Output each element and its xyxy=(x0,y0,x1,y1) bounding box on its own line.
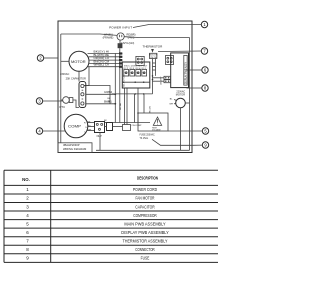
svg-text:1: 1 xyxy=(203,22,206,27)
caution note box xyxy=(138,113,168,131)
capacitor value label xyxy=(66,77,86,81)
svg-text:4: 4 xyxy=(38,129,41,134)
connector CN-MOTOR label xyxy=(123,75,125,87)
wire leader to callout 8 xyxy=(187,87,202,89)
connector CN-COMP xyxy=(123,125,143,131)
wire pwb down mid xyxy=(133,94,135,123)
connector CN-TH xyxy=(149,53,158,59)
callout 6 xyxy=(202,67,208,73)
motor lead labels xyxy=(94,50,110,66)
svg-text:T3.15AL: T3.15AL xyxy=(140,137,149,140)
svg-text:MOTOR: MOTOR xyxy=(176,93,185,96)
parts table frame xyxy=(4,170,218,262)
svg-text:6: 6 xyxy=(26,230,29,235)
svg-text:CN-MOTOR: CN-MOTOR xyxy=(123,75,125,87)
svg-text:RD: RD xyxy=(88,126,92,128)
wire vent motor down xyxy=(180,108,182,151)
wire OLP to junction xyxy=(113,123,151,127)
vertical wire x115 xyxy=(114,54,116,123)
node RD(BR) FAN label xyxy=(126,33,135,40)
svg-text:WH: WH xyxy=(169,103,173,105)
callout 8 xyxy=(202,85,208,91)
svg-text:BN(BK): BN(BK) xyxy=(104,102,112,104)
wire leader to callout 7 xyxy=(158,50,201,53)
svg-text:RY-C: RY-C xyxy=(142,68,147,70)
connector CN-DISP upper xyxy=(164,76,171,79)
connector box left xyxy=(136,56,144,65)
table row 5 xyxy=(26,221,165,226)
table row 4 xyxy=(26,213,157,218)
wire OLP down to bus xyxy=(99,133,101,151)
display PWB label xyxy=(184,62,187,84)
wire capacitor top to junction xyxy=(84,86,111,104)
svg-text:5: 5 xyxy=(26,221,29,226)
svg-text:7: 7 xyxy=(26,239,29,244)
wire pwb to display xyxy=(152,62,164,94)
svg-text:5: 5 xyxy=(204,129,207,134)
display PWB inner board xyxy=(184,55,187,85)
wire pwb to note box xyxy=(143,94,145,113)
wire motor lead 4 xyxy=(89,62,123,64)
connector CN-DISP lower xyxy=(164,80,171,83)
svg-text:WH(BL) CA: WH(BL) CA xyxy=(94,64,110,67)
svg-text:9: 9 xyxy=(26,256,29,261)
svg-text:6: 6 xyxy=(204,68,207,73)
overload protector OLP xyxy=(95,122,105,133)
vent motor M3 xyxy=(176,98,186,108)
svg-text:CONNECTOR: CONNECTOR xyxy=(135,247,155,252)
svg-text:COMP: COMP xyxy=(68,124,82,128)
callout 7 xyxy=(201,48,207,54)
wire label BK-GN xyxy=(149,106,151,113)
main PWB assembly box xyxy=(122,62,150,88)
svg-text:RY-F: RY-F xyxy=(130,68,135,70)
wire fuse diagonal xyxy=(152,139,192,145)
capacitor C1 xyxy=(79,82,86,108)
wire capacitor right mid xyxy=(86,92,116,94)
svg-text:RY-H: RY-H xyxy=(136,68,141,70)
table row 2 xyxy=(26,196,155,201)
wire comp lead R xyxy=(87,122,94,124)
wire leader to callout 3 xyxy=(43,100,63,102)
table row 3 xyxy=(26,204,155,209)
wire motor to capacitor xyxy=(78,71,80,81)
relay RY2 xyxy=(130,68,135,76)
wire comp lead S xyxy=(88,126,95,128)
warning caption xyxy=(152,127,161,131)
table header DESCRIPTION xyxy=(137,176,158,181)
wiring diagram outer border xyxy=(58,21,192,153)
motor connector pins xyxy=(119,52,122,67)
wire leader to callout 2 xyxy=(44,57,58,59)
svg-text:2: 2 xyxy=(26,196,29,201)
svg-text:GN(BN): GN(BN) xyxy=(104,92,112,94)
svg-text:3BAHP2030P: 3BAHP2030P xyxy=(63,143,80,147)
display PWB assembly box xyxy=(171,53,189,88)
ground symbol below plug xyxy=(118,40,123,48)
svg-text:FAN MOTOR: FAN MOTOR xyxy=(136,196,156,201)
svg-text:DESCRIPTION: DESCRIPTION xyxy=(137,176,158,181)
wire motor left xyxy=(61,60,69,62)
svg-text:COMPRESSOR: COMPRESSOR xyxy=(133,213,157,218)
svg-text:4: 4 xyxy=(26,213,29,218)
rating plate box xyxy=(58,143,92,153)
svg-text:3: 3 xyxy=(38,99,41,104)
svg-text:(FRAME): (FRAME) xyxy=(103,35,114,39)
table row 1 xyxy=(26,187,157,192)
comp lead labels xyxy=(88,122,92,132)
svg-text:7: 7 xyxy=(203,49,206,54)
svg-text:9: 9 xyxy=(204,143,207,148)
svg-text:BK-GN: BK-GN xyxy=(149,106,151,113)
fuse spec label F1 xyxy=(140,133,155,140)
wire capacitor right bottom xyxy=(86,102,116,104)
junction wires below pwb xyxy=(125,88,139,125)
callout 3 xyxy=(36,98,42,104)
node GN/YL(GN) label xyxy=(121,41,135,45)
callout 2 xyxy=(37,55,43,61)
wire vent motor right xyxy=(185,102,189,104)
node WH(BL) FRAME label xyxy=(103,33,114,40)
wire motor lead 5 xyxy=(88,66,122,68)
table row 9 xyxy=(26,256,149,261)
svg-text:230VAC: 230VAC xyxy=(60,73,69,76)
svg-text:POWER CORD: POWER CORD xyxy=(133,187,158,192)
motor rating label xyxy=(60,73,69,76)
wire OLP out xyxy=(105,123,107,127)
terminal block xyxy=(107,123,113,131)
svg-text:DISPLAY PWB ASSY: DISPLAY PWB ASSY xyxy=(184,62,187,84)
wire pwb lower bus xyxy=(112,93,153,95)
PTC label xyxy=(60,105,66,109)
table row 6 xyxy=(26,230,169,235)
svg-text:R: R xyxy=(84,122,86,124)
right bus wire xyxy=(189,38,191,151)
wire label RD-WH xyxy=(120,102,122,110)
svg-text:8: 8 xyxy=(26,247,29,252)
wire motor lead 3 xyxy=(89,59,122,61)
wire leader to callout 9 xyxy=(192,144,202,146)
OLP label xyxy=(97,134,102,138)
PTC relay xyxy=(63,97,73,104)
svg-text:WIRING DIAGRAM: WIRING DIAGRAM xyxy=(63,147,87,151)
terminal block label xyxy=(104,120,107,122)
svg-text:RY-P: RY-P xyxy=(124,68,129,70)
wire right of plug to right bus xyxy=(124,36,189,39)
svg-text:8: 8 xyxy=(204,86,207,91)
svg-text:2: 2 xyxy=(39,56,42,61)
left bus wire xyxy=(60,34,62,143)
connector CN-DISP label xyxy=(161,76,163,85)
warning triangle xyxy=(153,117,161,125)
power input label xyxy=(109,26,132,30)
svg-text:RD-WH: RD-WH xyxy=(120,102,122,110)
power plug P1 xyxy=(117,33,124,40)
wire comp lead C xyxy=(87,130,94,132)
wire left of plug xyxy=(61,34,117,35)
callout 9 xyxy=(202,142,208,148)
svg-text:OLP: OLP xyxy=(97,134,102,138)
connector box right xyxy=(166,56,174,65)
callout 5 xyxy=(202,128,208,134)
rating plate text xyxy=(63,143,87,151)
svg-text:FUSE 250VAC: FUSE 250VAC xyxy=(140,133,155,136)
svg-text:VOLTAGE: VOLTAGE xyxy=(152,129,161,132)
relay RY4 xyxy=(142,68,147,76)
svg-text:1: 1 xyxy=(26,187,29,192)
callout 1 xyxy=(201,21,207,27)
svg-text:NO.: NO. xyxy=(22,177,30,182)
svg-text:MAIN PWB ASSEMBLY: MAIN PWB ASSEMBLY xyxy=(124,221,165,226)
thermistor arrow xyxy=(151,49,154,53)
relay RY3 xyxy=(136,68,141,76)
svg-text:CN-COMP: CN-COMP xyxy=(132,125,143,127)
wire leader to callout 6 xyxy=(187,69,202,71)
relay labels row xyxy=(124,66,148,68)
compressor M2 xyxy=(64,114,88,138)
thermistor label xyxy=(143,45,164,49)
svg-text:CN-DISP: CN-DISP xyxy=(161,76,163,85)
relay RY1 xyxy=(124,68,129,76)
svg-text:WH: WH xyxy=(88,130,92,132)
fan motor M1 xyxy=(69,51,89,71)
wire thermistor drop xyxy=(153,59,156,76)
svg-text:PTC: PTC xyxy=(60,105,66,109)
bottom bus wire xyxy=(96,149,190,151)
wire pwb internal bus 1 xyxy=(122,81,150,83)
svg-text:CAPACITOR: CAPACITOR xyxy=(135,204,155,209)
table row 8 xyxy=(26,247,155,252)
svg-text:FUSE: FUSE xyxy=(141,256,150,261)
table row 7 xyxy=(26,239,167,244)
wire ground drop from plug xyxy=(119,48,121,122)
vent motor lead WH xyxy=(169,103,175,105)
wire PTC left xyxy=(61,99,63,101)
wire motor lead 1 xyxy=(88,53,123,55)
svg-text:THERMISTOR ASSEMBLY: THERMISTOR ASSEMBLY xyxy=(123,239,168,244)
svg-text:BK: BK xyxy=(104,120,107,122)
svg-text:BL: BL xyxy=(170,99,173,101)
table header NO. xyxy=(22,177,30,182)
wire leader to callout 1 xyxy=(133,25,201,28)
svg-text:5VDC 12VDC RLY OUT: 5VDC 12VDC RLY OUT xyxy=(124,66,148,68)
svg-text:3: 3 xyxy=(26,204,29,209)
svg-text:MOTOR: MOTOR xyxy=(71,60,86,64)
svg-text:THERMISTOR: THERMISTOR xyxy=(143,45,164,49)
wire motor lead 2 xyxy=(89,56,123,58)
wire leader to callout 4 xyxy=(43,130,66,132)
vent motor lead BL xyxy=(170,99,177,101)
wire PTC right xyxy=(73,100,79,108)
svg-text:POWER INPUT: POWER INPUT xyxy=(109,26,132,30)
svg-text:25K CAPACITOR: 25K CAPACITOR xyxy=(66,77,86,81)
svg-text:DISPLAY PWB ASSEMBLY: DISPLAY PWB ASSEMBLY xyxy=(121,230,169,235)
callout 4 xyxy=(36,128,42,134)
wire leader to callout 5 xyxy=(168,130,202,132)
wire motor lead to capacitor top xyxy=(84,67,89,86)
vent motor rating label xyxy=(176,90,186,96)
svg-text:GN/YL(GN): GN/YL(GN) xyxy=(121,41,135,45)
